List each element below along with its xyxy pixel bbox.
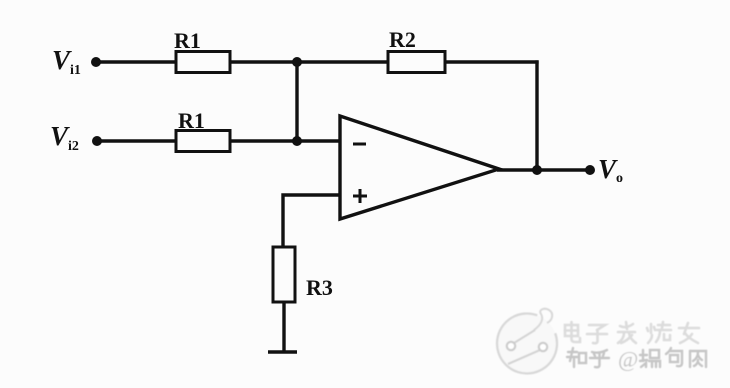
svg-text:Vo: Vo xyxy=(598,154,623,186)
wire R3 to ground xyxy=(282,302,285,352)
node B junction dot xyxy=(292,136,302,146)
op-amp U1 triangle xyxy=(340,116,499,219)
op-amp plus pin symbol xyxy=(353,189,367,203)
wire R1 lower to node B xyxy=(230,139,297,142)
ground symbol xyxy=(268,350,297,353)
svg-text:@: @ xyxy=(618,347,638,372)
wire Vi1 to R1 upper xyxy=(96,60,177,63)
terminal dot Vi1 xyxy=(91,57,101,67)
resistor R3 body xyxy=(273,247,295,302)
wire node A to node B vertical xyxy=(295,62,298,141)
wire feedback vertical down to output node xyxy=(535,60,538,170)
terminal dot Vo xyxy=(585,165,595,175)
node A junction dot xyxy=(292,57,302,67)
watermark text line 2 (zhihu @guobaorou) xyxy=(567,348,706,367)
svg-text:Vi1: Vi1 xyxy=(52,45,81,78)
svg-text:R3: R3 xyxy=(306,275,333,300)
wire R1 upper to node A xyxy=(230,60,297,63)
svg-text:Vi2: Vi2 xyxy=(50,121,79,154)
resistor R1 upper body xyxy=(176,52,230,73)
wire R2 to feedback corner xyxy=(445,60,539,63)
terminal dot Vi2 xyxy=(92,136,102,146)
resistor R1 lower body xyxy=(176,131,230,152)
svg-text:R1: R1 xyxy=(178,108,205,133)
svg-text:R2: R2 xyxy=(389,27,416,52)
wire node A to R2 xyxy=(297,60,389,63)
svg-text:R1: R1 xyxy=(174,28,201,53)
wire Vi2 to R1 lower xyxy=(97,139,177,142)
wire node B to op-amp inverting input xyxy=(297,139,341,142)
resistor R2 body xyxy=(388,52,445,73)
watermark text line 1 (dianzi fashaoyou) xyxy=(565,322,699,343)
wire op-amp output to Vo xyxy=(497,168,586,171)
op-amp minus pin symbol xyxy=(353,143,366,146)
watermark logo circle (elecfans) xyxy=(497,309,557,374)
wire op-amp noninverting input to R3 branch xyxy=(283,195,341,248)
output junction dot xyxy=(532,165,542,175)
